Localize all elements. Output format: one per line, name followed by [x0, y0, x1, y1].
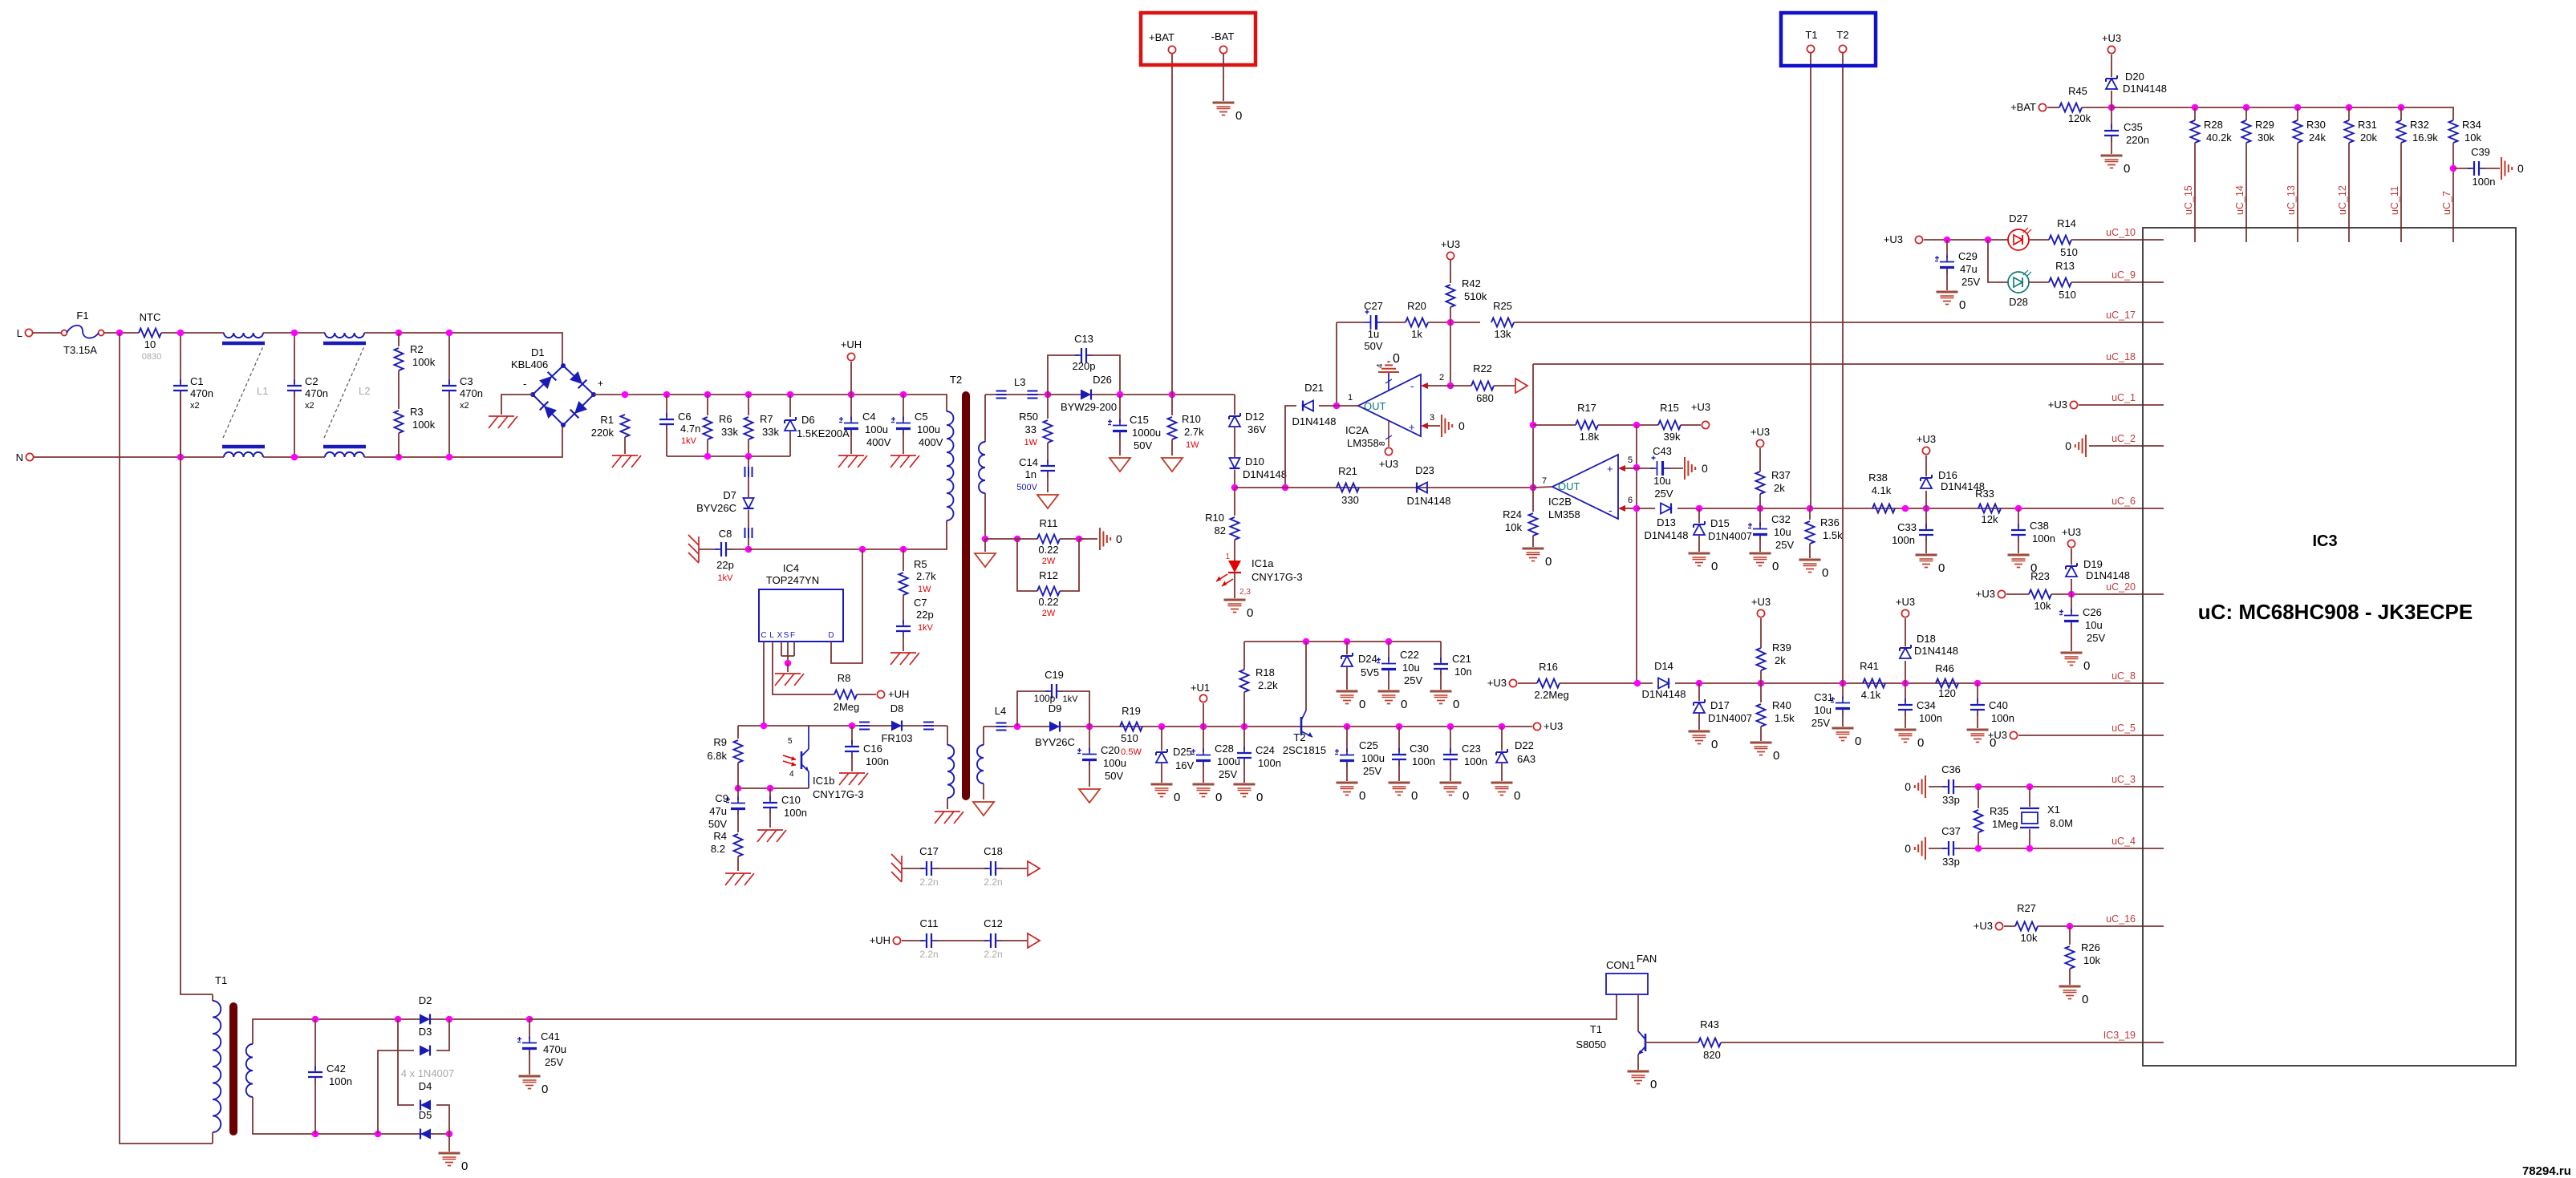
svg-text:100n: 100n: [1892, 534, 1915, 546]
svg-text:0: 0: [1393, 352, 1400, 366]
svg-text:R14: R14: [2057, 217, 2076, 229]
svg-text:R31: R31: [2358, 119, 2377, 131]
svg-text:D1N4007: D1N4007: [1708, 530, 1752, 542]
svg-text:R39: R39: [1772, 642, 1791, 654]
svg-text:C31: C31: [1814, 691, 1833, 703]
svg-text:0: 0: [1235, 109, 1242, 123]
svg-text:FR103: FR103: [881, 732, 912, 744]
svg-text:22p: 22p: [716, 559, 734, 571]
svg-text:10u: 10u: [2085, 619, 2103, 631]
svg-text:100u: 100u: [1361, 752, 1385, 764]
svg-text:uC_15: uC_15: [2183, 185, 2194, 215]
svg-text:D8: D8: [890, 702, 904, 714]
svg-text:1u: 1u: [1368, 328, 1379, 340]
svg-text:33k: 33k: [762, 426, 779, 438]
svg-text:KBL406: KBL406: [511, 358, 548, 370]
svg-text:C19: C19: [1045, 669, 1064, 681]
svg-text:0: 0: [2065, 439, 2071, 452]
svg-text:+UH: +UH: [841, 338, 862, 350]
svg-text:510: 510: [1121, 732, 1138, 744]
svg-text:4: 4: [789, 770, 794, 779]
svg-text:1kV: 1kV: [1063, 694, 1079, 704]
svg-text:100k: 100k: [412, 356, 436, 368]
svg-text:36V: 36V: [1247, 423, 1266, 435]
svg-text:C14: C14: [1019, 456, 1038, 468]
svg-text:40.2k: 40.2k: [2206, 132, 2232, 144]
svg-text:+U3: +U3: [1750, 426, 1770, 438]
svg-text:BYV26C: BYV26C: [1035, 736, 1075, 748]
svg-text:R11: R11: [1040, 517, 1058, 529]
svg-text:C2: C2: [305, 375, 318, 387]
svg-text:R3: R3: [410, 406, 424, 418]
svg-text:0: 0: [1514, 789, 1520, 803]
svg-text:D1N4148: D1N4148: [2086, 569, 2130, 581]
svg-text:R25: R25: [1493, 300, 1512, 312]
svg-text:0: 0: [1959, 298, 1965, 312]
svg-text:C33: C33: [1897, 521, 1917, 533]
svg-text:0.5W: 0.5W: [1121, 747, 1142, 757]
svg-text:uC_16: uC_16: [2106, 913, 2136, 925]
svg-text:R15: R15: [1660, 402, 1679, 414]
svg-text:C3: C3: [460, 375, 473, 387]
svg-text:100u: 100u: [917, 423, 940, 435]
svg-text:BYW29-200: BYW29-200: [1061, 401, 1117, 413]
svg-text:25V: 25V: [2087, 632, 2105, 644]
svg-text:+UH: +UH: [888, 688, 909, 700]
svg-text:7: 7: [1542, 476, 1547, 486]
svg-text:0: 0: [1938, 561, 1945, 575]
svg-text:100n: 100n: [1991, 712, 2014, 724]
svg-text:D28: D28: [2009, 296, 2028, 308]
svg-text:uC_1: uC_1: [2112, 392, 2136, 403]
svg-text:220p: 220p: [1073, 360, 1096, 372]
svg-text:100n: 100n: [1464, 755, 1487, 767]
svg-text:10k: 10k: [2464, 132, 2481, 144]
svg-text:330: 330: [1341, 494, 1359, 506]
svg-text:C41: C41: [541, 1030, 560, 1042]
svg-text:1W: 1W: [918, 585, 931, 594]
svg-text:10k: 10k: [1505, 521, 1522, 533]
svg-text:R18: R18: [1256, 666, 1275, 678]
svg-text:CON1: CON1: [1606, 959, 1635, 971]
svg-text:-: -: [523, 378, 526, 390]
svg-text:0: 0: [1359, 698, 1365, 711]
svg-text:OUT: OUT: [1558, 480, 1580, 492]
svg-text:100n: 100n: [866, 755, 889, 767]
svg-text:uC_3: uC_3: [2112, 774, 2136, 785]
svg-text:D1N4007: D1N4007: [1708, 712, 1752, 724]
svg-text:680: 680: [1476, 392, 1494, 404]
svg-text:2: 2: [1439, 373, 1444, 383]
svg-text:R27: R27: [2017, 902, 2036, 914]
svg-text:D19: D19: [2083, 558, 2103, 570]
svg-text:4.1k: 4.1k: [1872, 484, 1892, 496]
svg-text:R41: R41: [1860, 660, 1879, 672]
svg-text:D7: D7: [723, 489, 736, 501]
svg-text:D1: D1: [531, 346, 545, 358]
svg-text:+BAT: +BAT: [2010, 101, 2036, 113]
svg-text:25V: 25V: [1404, 674, 1422, 686]
svg-text:0: 0: [1453, 698, 1459, 711]
svg-text:33: 33: [1025, 423, 1036, 435]
svg-text:C36: C36: [1941, 763, 1961, 775]
svg-text:T2: T2: [1836, 29, 1848, 41]
svg-text:L1: L1: [257, 385, 268, 397]
svg-text:D10: D10: [1245, 455, 1264, 468]
svg-text:C10: C10: [781, 794, 801, 806]
svg-text:1k: 1k: [1411, 328, 1422, 340]
svg-text:D1N4148: D1N4148: [1914, 645, 1958, 657]
svg-text:0: 0: [1650, 1078, 1657, 1091]
svg-text:0: 0: [1905, 842, 1911, 855]
svg-text:C38: C38: [2030, 520, 2049, 532]
svg-text:+U3: +U3: [1441, 238, 1460, 250]
svg-text:C5: C5: [915, 411, 928, 423]
svg-text:+UH: +UH: [870, 934, 890, 946]
svg-text:0: 0: [461, 1160, 468, 1173]
svg-text:C32: C32: [1771, 513, 1791, 525]
svg-text:2k: 2k: [1774, 482, 1785, 494]
svg-text:R42: R42: [1462, 277, 1481, 289]
svg-text:0: 0: [1772, 560, 1779, 573]
svg-text:820: 820: [1703, 1049, 1721, 1061]
svg-text:220n: 220n: [2126, 134, 2149, 146]
svg-text:100u: 100u: [1217, 755, 1240, 767]
svg-text:47u: 47u: [1960, 263, 1978, 275]
svg-text:R20: R20: [1407, 300, 1426, 312]
svg-text:1.5KE200A: 1.5KE200A: [797, 427, 850, 439]
svg-text:D23: D23: [1415, 464, 1434, 476]
svg-text:+U3: +U3: [1487, 677, 1507, 689]
svg-text:+U3: +U3: [1884, 233, 1903, 245]
svg-text:D18: D18: [1917, 633, 1936, 645]
svg-text:R6: R6: [719, 413, 732, 425]
svg-text:0: 0: [1215, 791, 1222, 804]
svg-text:100p: 100p: [1034, 693, 1056, 704]
svg-text:C27: C27: [1364, 300, 1383, 312]
svg-text:47u: 47u: [709, 805, 727, 817]
svg-text:R7: R7: [760, 413, 773, 425]
svg-text:0: 0: [1711, 560, 1718, 573]
svg-text:100u: 100u: [865, 423, 888, 435]
svg-text:D13: D13: [1657, 516, 1676, 528]
svg-text:R10: R10: [1205, 512, 1224, 524]
svg-text:C30: C30: [1410, 743, 1429, 755]
svg-text:50V: 50V: [1105, 770, 1123, 782]
svg-text:+U3: +U3: [2102, 32, 2121, 44]
svg-text:CNY17G-3: CNY17G-3: [813, 788, 864, 800]
svg-text:4.1k: 4.1k: [1861, 689, 1881, 701]
svg-text:120k: 120k: [2068, 112, 2091, 124]
svg-text:N: N: [16, 451, 23, 464]
svg-text:0: 0: [542, 1083, 548, 1096]
svg-text:R21: R21: [1338, 465, 1357, 477]
svg-text:+BAT: +BAT: [1149, 31, 1174, 43]
svg-text:C11: C11: [920, 917, 939, 929]
svg-text:+U3: +U3: [1751, 596, 1771, 608]
svg-text:0: 0: [1359, 789, 1365, 803]
svg-text:0: 0: [1702, 462, 1708, 475]
svg-text:+U3: +U3: [2048, 399, 2067, 411]
svg-text:C40: C40: [1989, 699, 2008, 711]
svg-text:0: 0: [1116, 532, 1122, 545]
svg-text:T2: T2: [1293, 731, 1305, 743]
svg-text:R1: R1: [600, 414, 614, 426]
svg-text:R2: R2: [410, 343, 424, 355]
svg-text:1W: 1W: [1024, 438, 1038, 447]
svg-text:-: -: [1608, 504, 1613, 516]
svg-text:R24: R24: [1503, 508, 1522, 520]
svg-text:1kV: 1kV: [918, 623, 934, 633]
svg-text:IC4: IC4: [783, 562, 799, 574]
svg-text:D25: D25: [1173, 746, 1192, 758]
svg-text:D9: D9: [1049, 702, 1062, 714]
svg-text:0: 0: [1773, 749, 1779, 763]
svg-text:IC3_19: IC3_19: [2103, 1030, 2136, 1041]
svg-text:10k: 10k: [2021, 932, 2038, 944]
svg-text:0: 0: [1711, 738, 1718, 751]
svg-text:uC_5: uC_5: [2112, 723, 2136, 734]
svg-text:2.7k: 2.7k: [1184, 426, 1204, 438]
svg-text:0: 0: [1545, 555, 1552, 569]
svg-text:+U3: +U3: [1976, 588, 1995, 600]
svg-text:D1N4148: D1N4148: [1642, 688, 1686, 700]
svg-text:8.2: 8.2: [711, 843, 725, 855]
svg-text:R19: R19: [1122, 705, 1141, 717]
svg-text:+: +: [1607, 463, 1613, 475]
svg-text:C22: C22: [1400, 649, 1419, 661]
svg-text:D24: D24: [1358, 653, 1377, 665]
svg-text:0: 0: [1822, 566, 1828, 580]
svg-text:0: 0: [1855, 735, 1861, 748]
svg-text:D1N4148: D1N4148: [1292, 415, 1337, 427]
svg-text:D1N4148: D1N4148: [1407, 495, 1451, 507]
svg-text:S8050: S8050: [1576, 1038, 1606, 1050]
svg-text:D5: D5: [419, 1109, 432, 1121]
svg-text:0: 0: [2124, 162, 2130, 176]
svg-text:R23: R23: [2030, 570, 2050, 582]
svg-text:R12: R12: [1039, 569, 1058, 581]
svg-text:33p: 33p: [1942, 856, 1960, 868]
svg-text:C42: C42: [327, 1063, 346, 1075]
svg-text:D27: D27: [2009, 213, 2028, 225]
svg-text:C34: C34: [1917, 699, 1936, 711]
svg-text:R13: R13: [2055, 260, 2075, 272]
svg-text:0.22: 0.22: [1038, 544, 1058, 556]
svg-text:0: 0: [1917, 736, 1924, 750]
svg-text:0: 0: [1247, 606, 1253, 620]
svg-text:x2: x2: [460, 401, 469, 411]
svg-text:0830: 0830: [142, 352, 161, 362]
svg-text:R40: R40: [1772, 699, 1791, 711]
svg-text:D16: D16: [1938, 469, 1957, 481]
svg-text:30k: 30k: [2258, 132, 2274, 144]
svg-text:1.5k: 1.5k: [1775, 712, 1795, 724]
svg-text:0: 0: [1411, 789, 1418, 803]
svg-text:25V: 25V: [1775, 539, 1794, 551]
svg-text:+U3: +U3: [1988, 729, 2007, 741]
svg-text:OUT: OUT: [1364, 400, 1386, 412]
svg-text:2.2n: 2.2n: [919, 949, 938, 960]
svg-text:+U3: +U3: [2062, 526, 2081, 538]
svg-text:500V: 500V: [1016, 483, 1037, 492]
svg-text:5: 5: [788, 737, 793, 746]
svg-text:uC_12: uC_12: [2337, 185, 2348, 215]
svg-text:C9: C9: [715, 792, 728, 804]
svg-text:10k: 10k: [2083, 954, 2100, 966]
svg-text:C1: C1: [190, 375, 204, 387]
svg-text:100n: 100n: [1412, 755, 1435, 767]
svg-text:R46: R46: [1935, 662, 1954, 674]
svg-text:16V: 16V: [1175, 759, 1194, 771]
svg-text:C6: C6: [678, 411, 692, 423]
svg-text:R36: R36: [1820, 516, 1840, 528]
svg-text:D20: D20: [2125, 71, 2144, 83]
svg-text:D1N4148: D1N4148: [1243, 468, 1287, 480]
svg-text:1kV: 1kV: [681, 436, 697, 446]
svg-text:R50: R50: [1019, 411, 1038, 423]
svg-text:2W: 2W: [1042, 609, 1056, 618]
svg-text:L: L: [17, 327, 22, 339]
svg-text:C37: C37: [1941, 825, 1961, 837]
svg-text:4.7n: 4.7n: [680, 423, 700, 435]
svg-text:R35: R35: [1990, 805, 2009, 817]
svg-text:R26: R26: [2081, 941, 2100, 953]
svg-text:39k: 39k: [1664, 431, 1681, 443]
svg-text:TOP247YN: TOP247YN: [766, 574, 819, 586]
svg-text:0: 0: [1174, 791, 1180, 804]
svg-text:120: 120: [1938, 687, 1956, 699]
svg-text:L4: L4: [995, 705, 1006, 717]
svg-text:100n: 100n: [1919, 712, 1942, 724]
svg-text:uC_2: uC_2: [2112, 433, 2136, 444]
svg-text:C16: C16: [863, 743, 882, 755]
svg-text:1n: 1n: [1025, 468, 1036, 480]
svg-text:IC2A: IC2A: [1345, 424, 1369, 436]
svg-text:R34: R34: [2462, 119, 2481, 131]
svg-text:R32: R32: [2410, 119, 2429, 131]
svg-text:510k: 510k: [1464, 290, 1487, 302]
svg-text:10u: 10u: [1653, 475, 1671, 487]
svg-text:0: 0: [1462, 789, 1469, 803]
svg-text:D6: D6: [801, 414, 815, 426]
svg-text:F: F: [790, 631, 795, 640]
svg-text:L3: L3: [1014, 376, 1025, 388]
svg-text:25V: 25V: [1219, 768, 1237, 780]
svg-text:D21: D21: [1304, 382, 1324, 394]
svg-text:470n: 470n: [190, 387, 213, 399]
svg-text:+U3: +U3: [1544, 720, 1563, 732]
svg-text:510: 510: [2059, 289, 2076, 301]
svg-text:33k: 33k: [721, 426, 738, 438]
svg-text:C24: C24: [1256, 744, 1275, 756]
svg-text:50V: 50V: [1364, 340, 1382, 352]
svg-text:C13: C13: [1074, 333, 1093, 345]
svg-text:22p: 22p: [916, 609, 934, 621]
svg-text:uC_14: uC_14: [2234, 185, 2245, 215]
svg-text:2W: 2W: [1042, 557, 1056, 566]
svg-text:2.2n: 2.2n: [984, 876, 1002, 888]
svg-text:R10: R10: [1182, 413, 1201, 425]
svg-text:1Meg: 1Meg: [1992, 818, 2018, 830]
svg-text:10: 10: [144, 338, 156, 350]
svg-text:50V: 50V: [1134, 439, 1152, 451]
svg-text:D2: D2: [419, 994, 432, 1006]
svg-text:0: 0: [1256, 791, 1263, 804]
svg-text:25V: 25V: [1363, 765, 1381, 777]
svg-text:C25: C25: [1359, 739, 1378, 751]
svg-text:2.2Meg: 2.2Meg: [1534, 689, 1568, 701]
svg-text:1: 1: [1225, 553, 1230, 561]
svg-text:6A3: 6A3: [1517, 753, 1535, 765]
svg-text:1.5k: 1.5k: [1823, 529, 1843, 541]
svg-text:R29: R29: [2255, 119, 2274, 131]
svg-text:4: 4: [1376, 363, 1385, 368]
svg-text:T2: T2: [950, 374, 962, 386]
svg-text:D14: D14: [1654, 660, 1673, 672]
svg-text:C7: C7: [914, 597, 927, 609]
svg-text:uC_9: uC_9: [2112, 269, 2136, 281]
svg-text:R45: R45: [2068, 85, 2087, 97]
svg-text:33p: 33p: [1942, 794, 1960, 806]
svg-text:1000u: 1000u: [1132, 427, 1161, 439]
svg-text:D12: D12: [1245, 411, 1264, 423]
svg-text:C43: C43: [1653, 445, 1672, 457]
svg-text:L: L: [769, 631, 774, 640]
svg-text:IC2B: IC2B: [1548, 496, 1572, 508]
svg-text:IC1a: IC1a: [1251, 557, 1274, 569]
svg-text:D1N4148: D1N4148: [1645, 529, 1689, 541]
svg-text:C17: C17: [919, 845, 939, 857]
svg-text:8: 8: [1378, 441, 1387, 446]
svg-text:C8: C8: [719, 528, 732, 540]
svg-text:8.0M: 8.0M: [2050, 817, 2073, 829]
svg-text:3: 3: [1430, 413, 1434, 423]
svg-text:25V: 25V: [1811, 717, 1830, 729]
svg-text:10n: 10n: [1454, 666, 1472, 678]
svg-text:2.2n: 2.2n: [984, 949, 1002, 960]
svg-text:25V: 25V: [1961, 276, 1980, 288]
svg-text:82: 82: [1215, 524, 1226, 536]
svg-text:-: -: [1410, 379, 1414, 392]
svg-text:100k: 100k: [412, 419, 436, 431]
svg-text:C21: C21: [1452, 653, 1471, 665]
svg-text:T1: T1: [1590, 1023, 1602, 1035]
svg-text:uC_20: uC_20: [2106, 581, 2136, 593]
svg-text:20k: 20k: [2360, 132, 2377, 144]
svg-text:+U3: +U3: [1917, 433, 1936, 445]
svg-text:25V: 25V: [1654, 488, 1673, 500]
svg-text:C15: C15: [1130, 414, 1149, 426]
svg-text:100n: 100n: [2032, 532, 2055, 544]
svg-text:1W: 1W: [1186, 440, 1199, 450]
svg-text:R4: R4: [713, 830, 727, 842]
svg-text:+: +: [598, 378, 603, 389]
svg-text:R16: R16: [1539, 661, 1558, 673]
svg-text:+U3: +U3: [1379, 458, 1398, 470]
svg-text:R8: R8: [838, 672, 851, 684]
svg-text:T1: T1: [1805, 29, 1817, 41]
svg-text:D: D: [828, 631, 834, 640]
svg-text:13k: 13k: [1495, 328, 1511, 340]
svg-text:400V: 400V: [919, 436, 943, 448]
svg-text:C23: C23: [1462, 743, 1481, 755]
svg-text:CNY17G-3: CNY17G-3: [1251, 571, 1303, 583]
svg-text:+U3: +U3: [1974, 920, 1993, 932]
svg-text:2Meg: 2Meg: [834, 701, 860, 713]
svg-text:D17: D17: [1710, 699, 1730, 711]
svg-text:C29: C29: [1958, 250, 1978, 262]
